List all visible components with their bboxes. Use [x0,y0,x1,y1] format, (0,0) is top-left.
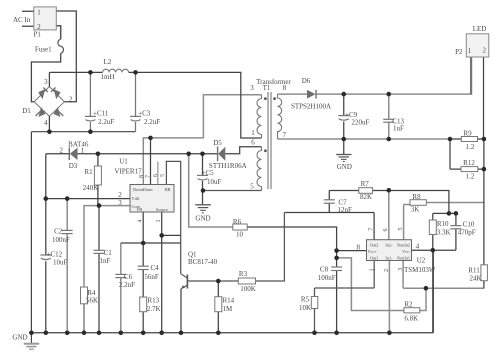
svg-text:4: 4 [138,220,144,223]
svg-text:2.2uF: 2.2uF [144,118,160,126]
svg-text:R14: R14 [223,297,235,305]
svg-text:2: 2 [384,269,390,272]
svg-text:2: 2 [59,147,63,155]
svg-text:1.2: 1.2 [466,143,475,151]
svg-text:1.2: 1.2 [466,173,475,181]
svg-text:4: 4 [416,243,420,251]
svg-text:FB: FB [137,207,142,212]
svg-text:BR: BR [165,187,171,192]
svg-text:2: 2 [69,95,73,103]
svg-text:7: 7 [283,131,287,139]
svg-text:DrainDrain: DrainDrain [133,187,153,192]
svg-text:T1: T1 [263,84,271,92]
svg-text:P1: P1 [33,31,41,39]
svg-text:1: 1 [370,269,376,272]
svg-text:In2-: In2- [385,242,393,247]
svg-text:1: 1 [81,147,85,155]
svg-text:C2: C2 [54,228,63,236]
svg-text:Out2: Out2 [370,242,379,247]
svg-text:10uF: 10uF [207,178,222,186]
svg-text:6: 6 [153,174,159,177]
svg-text:Vdd: Vdd [132,196,140,201]
svg-text:C4: C4 [151,264,160,272]
svg-text:GND: GND [12,334,27,342]
svg-text:2: 2 [118,191,122,199]
svg-text:2.2uF: 2.2uF [98,118,114,126]
svg-text:BAT46: BAT46 [68,140,89,148]
svg-text:GND: GND [337,163,352,171]
svg-text:C6: C6 [124,273,133,281]
svg-text:+C12: +C12 [47,250,63,258]
svg-text:+C5: +C5 [202,169,215,177]
svg-text:6.8K: 6.8K [404,314,418,322]
svg-text:NonIn1: NonIn1 [397,255,410,260]
svg-text:STTH1R06A: STTH1R06A [209,162,247,170]
svg-text:R7: R7 [361,180,370,188]
svg-text:P2: P2 [455,48,463,56]
svg-text:R12: R12 [463,159,475,167]
svg-text:Vcc+: Vcc+ [368,249,378,254]
svg-text:100nF: 100nF [318,274,336,282]
svg-text:R13: R13 [148,297,160,305]
svg-text:3: 3 [250,84,254,92]
svg-text:R5: R5 [301,295,310,303]
svg-text:470pF: 470pF [458,229,476,237]
svg-text:1uF: 1uF [393,125,404,133]
svg-text:R9: R9 [463,129,472,137]
svg-text:2: 2 [483,46,487,54]
svg-text:3: 3 [44,78,48,86]
svg-text:D3: D3 [69,162,78,170]
svg-text:D5: D5 [213,139,222,147]
svg-text:U1: U1 [119,158,128,166]
svg-text:BC817-40: BC817-40 [188,258,218,266]
svg-text:Source: Source [156,207,168,212]
svg-text:R10: R10 [437,220,449,228]
svg-text:4: 4 [44,119,48,127]
svg-text:R11: R11 [468,266,480,274]
svg-text:R2: R2 [404,301,413,309]
svg-text:R6: R6 [233,218,242,226]
svg-text:3: 3 [118,199,122,207]
svg-text:8: 8 [139,175,145,178]
svg-text:3.3K: 3.3K [437,229,451,237]
svg-text:1: 1 [251,129,255,137]
svg-text:+C11: +C11 [93,109,109,117]
svg-text:5: 5 [398,228,404,231]
svg-text:56nF: 56nF [144,273,159,281]
svg-text:Fuse1: Fuse1 [35,45,52,53]
svg-text:D6: D6 [302,77,311,85]
svg-text:10K: 10K [299,304,311,312]
svg-text:LED: LED [473,25,487,33]
svg-text:7: 7 [146,175,152,178]
svg-text:1: 1 [156,220,162,223]
svg-text:24K: 24K [469,274,481,282]
svg-text:12nF: 12nF [337,206,352,214]
svg-text:VIPER17: VIPER17 [114,168,142,176]
svg-text:2.7K: 2.7K [147,305,161,313]
svg-text:5: 5 [160,174,166,177]
svg-text:240K: 240K [83,184,99,192]
svg-text:1mH: 1mH [101,73,115,81]
svg-text:C8: C8 [320,266,329,274]
svg-text:AC In: AC In [13,16,31,24]
svg-text:L2: L2 [104,58,112,66]
svg-text:5: 5 [250,183,254,191]
svg-text:Vcc-: Vcc- [402,249,411,254]
svg-text:8: 8 [283,84,287,92]
svg-text:TSM103W: TSM103W [404,266,436,274]
svg-text:3K: 3K [411,206,420,214]
svg-text:220uF: 220uF [352,119,370,127]
svg-text:56K: 56K [86,296,98,304]
svg-text:1M: 1M [223,305,234,313]
svg-text:U2: U2 [417,257,426,265]
svg-text:C10: C10 [463,220,475,228]
svg-text:6: 6 [251,138,255,146]
svg-text:NonIn2: NonIn2 [397,242,410,247]
svg-text:Out1: Out1 [370,255,379,260]
svg-text:C1: C1 [104,249,113,257]
svg-text:100nF: 100nF [52,236,70,244]
svg-text:3: 3 [398,268,404,271]
svg-text:In1-: In1- [385,255,393,260]
svg-text:1nF: 1nF [100,257,111,265]
svg-text:R8: R8 [412,193,421,201]
svg-text:1: 1 [37,8,41,16]
svg-text:+C3: +C3 [138,109,151,117]
svg-text:82K: 82K [360,193,372,201]
svg-text:R1: R1 [84,168,93,176]
svg-text:D1: D1 [22,107,31,115]
svg-text:2.2nF: 2.2nF [119,281,135,289]
svg-text:GND: GND [195,215,210,223]
svg-text:1: 1 [468,47,472,55]
svg-text:STPS2H100A: STPS2H100A [291,102,331,110]
svg-text:7: 7 [369,228,375,231]
svg-text:8: 8 [357,244,361,252]
svg-text:6: 6 [383,229,389,232]
svg-text:R3: R3 [239,270,248,278]
svg-text:10: 10 [236,231,244,239]
svg-text:100K: 100K [240,285,256,293]
svg-text:10uF: 10uF [53,258,68,266]
